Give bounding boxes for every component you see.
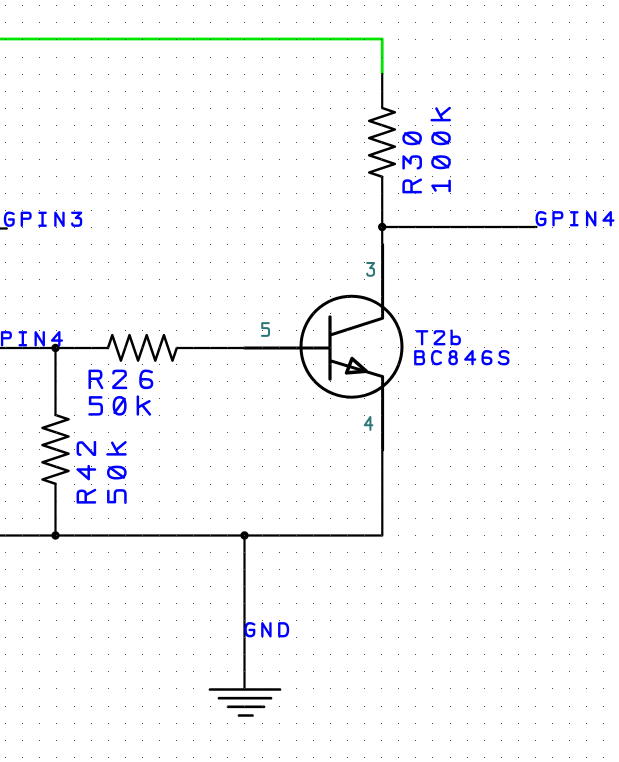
part value 100k (rotated) xyxy=(432,108,450,191)
wire R42 to bottom rail xyxy=(54,484,56,536)
part name R42 (rotated) xyxy=(78,442,95,502)
resistor R42 xyxy=(43,415,69,484)
transistor collector diagonal xyxy=(331,245,383,335)
transistor base bar xyxy=(328,317,331,379)
part value 50k xyxy=(90,397,150,415)
junction node bottom rail / GND xyxy=(240,531,248,539)
transistor emitter diagonal xyxy=(331,361,383,450)
part value 50k (rotated) xyxy=(108,442,126,502)
wire node to GPIN4 label xyxy=(382,226,536,228)
junction node GPIN4 xyxy=(378,223,386,231)
junction node PIN4/R42 xyxy=(51,344,59,352)
wire R26 to base pin xyxy=(177,347,245,349)
part name R26 xyxy=(90,371,152,388)
ground symbol GND xyxy=(210,690,280,716)
net label GPIN4 xyxy=(537,212,614,225)
wire PIN4 node down to R42 xyxy=(54,348,56,415)
resistor R26 xyxy=(108,335,177,360)
pin number 3 xyxy=(367,263,374,276)
wire R30 to node xyxy=(381,177,383,227)
part value BC846S xyxy=(415,351,508,364)
wire PIN4 to R26 xyxy=(0,347,108,349)
transistor base pin xyxy=(245,347,331,350)
net label GPIN3 xyxy=(5,213,81,226)
part name T2b xyxy=(417,331,460,344)
pin number 5 xyxy=(262,323,269,336)
net label PIN4 xyxy=(2,332,62,345)
part name R30 (rotated) xyxy=(404,133,421,193)
transistor T2b body circle xyxy=(301,296,402,397)
wire bottom rail xyxy=(0,450,382,536)
wire net GPIN3 green segment xyxy=(0,39,382,74)
net label GND xyxy=(246,623,288,636)
pin number 4 xyxy=(365,417,373,430)
transistor emitter arrow xyxy=(347,359,367,373)
wire collector pin to node xyxy=(381,227,383,245)
resistor R30 xyxy=(369,108,395,177)
wire GND drop xyxy=(243,536,245,690)
wire GPIN3 stub xyxy=(0,227,7,229)
blue labels xyxy=(2,212,613,636)
teal pin numbers xyxy=(262,263,374,430)
wire black top segment to R30 xyxy=(381,74,383,108)
junction node bottom rail / R42 xyxy=(51,531,59,539)
